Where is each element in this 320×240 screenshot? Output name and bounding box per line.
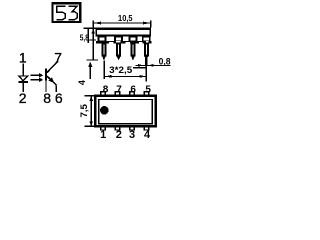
- svg-text:3: 3: [129, 129, 135, 140]
- svg-text:3*2,5: 3*2,5: [109, 65, 132, 75]
- svg-text:6: 6: [55, 90, 63, 106]
- svg-text:7,5: 7,5: [79, 104, 89, 118]
- svg-text:10,5: 10,5: [118, 13, 133, 23]
- svg-text:8: 8: [103, 84, 109, 95]
- svg-text:1: 1: [100, 129, 106, 140]
- svg-text:5: 5: [145, 84, 151, 95]
- svg-text:5,8: 5,8: [80, 33, 90, 42]
- svg-text:4: 4: [77, 80, 87, 85]
- svg-text:0,8: 0,8: [159, 56, 171, 66]
- svg-text:7: 7: [116, 84, 122, 95]
- svg-text:4: 4: [144, 129, 151, 140]
- svg-text:2: 2: [19, 90, 27, 106]
- svg-text:8: 8: [43, 90, 51, 106]
- svg-text:2: 2: [116, 129, 122, 140]
- svg-text:6: 6: [130, 84, 136, 95]
- svg-text:1: 1: [19, 49, 27, 65]
